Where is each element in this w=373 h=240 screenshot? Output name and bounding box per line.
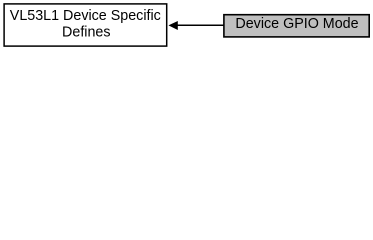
svg-text:VL53L1 Device Specific: VL53L1 Device Specific [10, 8, 161, 24]
node box: Device GPIO Mode (current node, gray fill) [224, 15, 369, 37]
label: Device GPIO Mode [235, 16, 358, 32]
wire: edge from Device GPIO Mode node to VL53L1 Device Specific Defines node [177, 24, 224, 26]
arrowhead of edge (points left) [169, 22, 177, 30]
svg-text:Device GPIO Mode: Device GPIO Mode [235, 16, 358, 32]
node box: VL53L1 Device Specific Defines [4, 4, 167, 46]
svg-text:Defines: Defines [62, 25, 110, 41]
label: Defines (line 2) [62, 25, 110, 41]
label: VL53L1 Device Specific (line 1) [10, 8, 161, 24]
